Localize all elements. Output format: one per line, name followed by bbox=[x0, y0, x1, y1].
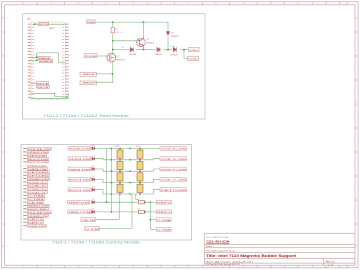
gate G1 output bubble bbox=[145, 202, 146, 203]
svg-text:Id: 1/1: Id: 1/1 bbox=[328, 265, 335, 267]
J2 net label PULSE.DM box bbox=[28, 211, 52, 214]
title block h-line 1 bbox=[205, 243, 356, 245]
svg-text:File: bubble-support.kicad_sch: File: bubble-support.kicad_sch bbox=[206, 250, 236, 253]
svg-text:SWAP.B: SWAP.B bbox=[40, 60, 53, 63]
title block h-line 3 bbox=[205, 252, 356, 254]
ladder left bus vertical 1 bbox=[106, 148, 108, 202]
junction R1 row C bbox=[150, 219, 152, 221]
connector J2 pin column bbox=[23, 148, 26, 227]
svg-text:Size: A4 | Date: 2023-05-18: Size: A4 | Date: 2023-05-18 | bbox=[206, 260, 254, 263]
svg-text:C: C bbox=[356, 103, 358, 106]
svg-text:PWR: PWR bbox=[87, 22, 95, 24]
J2 net label DET.X box bbox=[28, 218, 44, 221]
row D label box bbox=[85, 227, 100, 231]
J2 net label SEED.DM box bbox=[28, 204, 50, 207]
J2 net label DET.X wire stub bbox=[26, 218, 28, 220]
junction source-seed bbox=[112, 73, 114, 75]
wire stub to DET labels bbox=[31, 82, 37, 84]
right label COIL.X+.DM box bbox=[160, 147, 187, 151]
junction row B at bus bbox=[111, 211, 113, 213]
connector U1 left pin column bbox=[28, 24, 31, 100]
J2 net label DET.DM2 box bbox=[28, 174, 50, 177]
seed label B box bbox=[80, 81, 97, 85]
net label DET/A box bbox=[37, 82, 49, 86]
svg-text:U?: U? bbox=[138, 199, 140, 201]
J2 net label XFER.DM box bbox=[28, 151, 49, 154]
junction at U1 mid pin a bbox=[36, 56, 38, 58]
ladder junction dots bbox=[111, 148, 141, 195]
net label DET/B box bbox=[37, 85, 50, 88]
junction row A at bus bbox=[106, 201, 108, 203]
pulse label box bbox=[84, 54, 97, 58]
net label MOD/CS box bbox=[39, 22, 49, 25]
svg-text:D?: D? bbox=[92, 187, 94, 189]
svg-text:COIL.Y-.DM: COIL.Y-.DM bbox=[161, 180, 186, 182]
power label Pwr box bbox=[87, 20, 95, 24]
wire under U1 second bbox=[31, 98, 69, 100]
J2 net label BOOT.CM box bbox=[28, 161, 49, 164]
J2 net label COIL.Y- wire stub bbox=[26, 191, 28, 193]
seed label A box bbox=[80, 73, 97, 77]
svg-text:MOD.CS: MOD.CS bbox=[39, 24, 48, 26]
document link underline bbox=[206, 242, 229, 244]
seed module sheet box bbox=[23, 14, 205, 119]
J2 net label GEN.CM box bbox=[28, 167, 48, 170]
connector U1 body bbox=[31, 22, 65, 100]
svg-text:7110-1 / 7110A / 7110AZ Dummy: 7110-1 / 7110A / 7110AZ Dummy Module bbox=[52, 240, 140, 244]
svg-text:SEED.B: SEED.B bbox=[83, 82, 95, 84]
J2 net label PULSE.CM box bbox=[28, 147, 52, 150]
resistor R8 body bbox=[137, 173, 143, 181]
junction at U1 mid pin b bbox=[36, 60, 38, 62]
svg-text:COIL: COIL bbox=[170, 46, 176, 48]
right wire to DET.COM bbox=[153, 190, 160, 194]
clamp line wire segments bbox=[113, 49, 189, 51]
J2 net label XFER.CM wire stub bbox=[26, 215, 28, 217]
J2 net label COIL.X+ wire stub bbox=[26, 181, 28, 183]
diode D4 body bbox=[166, 32, 169, 35]
right label row B box bbox=[156, 210, 172, 214]
svg-text:GEN.COM: GEN.COM bbox=[69, 212, 91, 214]
J2 net label MOD.SEL box bbox=[28, 208, 49, 211]
svg-text:D: D bbox=[356, 151, 358, 154]
J2 stack gap bbox=[23, 163, 55, 165]
junction clamp right bbox=[183, 49, 185, 51]
right label COIL.Y+.DM box bbox=[160, 167, 187, 171]
right wire to COIL.Y+.DM bbox=[153, 169, 160, 171]
J2 net label GND.DM box bbox=[28, 224, 47, 227]
coil label B box bbox=[188, 56, 199, 60]
left edge grid tick marks bbox=[2, 32, 5, 224]
connector U1 left pin numbers bbox=[32, 24, 34, 99]
J2 net label DET.Y wire stub bbox=[26, 221, 28, 223]
right label row A box bbox=[156, 200, 172, 204]
svg-text:REP.DM: REP.DM bbox=[69, 202, 90, 204]
svg-text:COIL.Y+.DM: COIL.Y+.DM bbox=[161, 169, 186, 171]
resistor pin stubs (red) bbox=[120, 149, 140, 194]
wire U1 pin1 across top bbox=[35, 23, 67, 25]
svg-text:RES?: RES? bbox=[49, 28, 55, 30]
dummy input label BOOT.DM box bbox=[68, 178, 91, 182]
dummy input wire BOOT.DM bbox=[95, 179, 111, 182]
dummy module sheet box bbox=[21, 145, 192, 241]
J2 net label GEN.CM wire stub bbox=[26, 168, 28, 170]
junction base-resistor bbox=[112, 40, 114, 42]
svg-text:COIL+: COIL+ bbox=[189, 50, 199, 52]
right edge grid tick marks bbox=[355, 32, 358, 224]
svg-text:SEED.A: SEED.A bbox=[83, 73, 95, 76]
row C label box bbox=[81, 218, 96, 222]
svg-text:Rev: 1.0: Rev: 1.0 bbox=[326, 260, 336, 263]
J2 net label GEN.DM wire stub bbox=[26, 154, 28, 156]
ladder row wires bbox=[111, 148, 153, 194]
svg-text:SWAP.DM: SWAP.DM bbox=[28, 178, 49, 181]
right label row D box bbox=[156, 227, 171, 231]
net label SWAP/B box bbox=[39, 60, 52, 63]
net label SWAP/A box bbox=[38, 56, 50, 59]
right label row C box bbox=[156, 218, 171, 222]
svg-text:BOOT.CM: BOOT.CM bbox=[69, 190, 90, 192]
J2 net label DET.DM2 wire stub bbox=[26, 175, 28, 177]
right wire to COIL.X-.DM bbox=[153, 159, 160, 160]
row A diode D16 bbox=[92, 201, 95, 204]
junction gate G1 out bbox=[150, 201, 152, 203]
J2 net label REP.DM wire stub bbox=[26, 165, 28, 167]
svg-text:U?: U? bbox=[138, 209, 140, 211]
J2 net label SWAP.DM box bbox=[28, 177, 50, 180]
J2 net label DET.DM1 box bbox=[28, 171, 50, 174]
svg-text:1.2k: 1.2k bbox=[115, 32, 119, 34]
ladder left bus vertical 2 bbox=[110, 148, 112, 212]
svg-text:1N5817: 1N5817 bbox=[155, 54, 163, 56]
svg-text:UF4007: UF4007 bbox=[170, 55, 179, 57]
junction rail at Q1 bbox=[143, 21, 145, 23]
row B wire bbox=[95, 211, 138, 213]
svg-text:4x R?: 4x R? bbox=[115, 146, 120, 148]
resistor R7 body bbox=[137, 161, 143, 169]
J2 net label SWAP.DM wire stub bbox=[26, 178, 28, 180]
gate G2 body bbox=[138, 210, 144, 213]
resistor column 2 connecting wire bbox=[139, 148, 141, 194]
dummy input wire PULSE.COM bbox=[95, 147, 111, 149]
gate G2 output bubble bbox=[145, 211, 146, 212]
diode D3 body bbox=[173, 47, 176, 51]
resistor R5 body bbox=[117, 184, 123, 192]
dummy input diode D15 bbox=[92, 188, 95, 191]
title block h-line 5 bbox=[205, 262, 356, 264]
J2 net label CB.TM box bbox=[28, 201, 44, 204]
svg-text:BOOT.DM: BOOT.DM bbox=[69, 180, 90, 182]
svg-text:BSS138: BSS138 bbox=[117, 59, 126, 61]
coil label A box bbox=[189, 47, 200, 51]
J2 net label C.TMB wire stub bbox=[26, 198, 28, 200]
row A label box bbox=[68, 200, 90, 204]
J2 net label XFER.CM box bbox=[28, 214, 49, 217]
seed label A wire bbox=[95, 73, 113, 75]
mosfet Q2 body bbox=[107, 53, 116, 62]
J2 net label COIL.X- box bbox=[28, 184, 48, 187]
mosfet Q2 drain wire bbox=[112, 41, 114, 54]
svg-text:C.TM: C.TM bbox=[85, 229, 99, 231]
svg-text:DET.COM: DET.COM bbox=[161, 190, 187, 192]
mosfet Q2 internal bbox=[109, 53, 114, 62]
J2 net label XFER.DM wire stub bbox=[26, 151, 28, 153]
resistor R1 body bbox=[111, 27, 114, 33]
dummy input label BOOT.CM box bbox=[68, 188, 91, 192]
J2 net label COIL.X+ box bbox=[28, 181, 48, 184]
right wire to COIL.Y-.DM bbox=[153, 179, 160, 182]
svg-text:Sheet: /: Sheet: / bbox=[206, 245, 214, 248]
J2 net label CB.TM wire stub bbox=[26, 201, 28, 203]
svg-text:Sense: Sense bbox=[120, 32, 125, 34]
top edge grid tick marks bbox=[37, 2, 340, 5]
diode D4 wires bbox=[167, 37, 169, 50]
top power rail wire bbox=[95, 22, 168, 31]
svg-text:C: C bbox=[2, 103, 4, 106]
junction clamp at Q1 collector bbox=[143, 49, 145, 51]
wire under U1 bbox=[31, 93, 69, 96]
junction rail at R1 bbox=[112, 21, 114, 23]
J2 net label GEN.DM box bbox=[28, 154, 47, 157]
row B diode D17 bbox=[92, 210, 95, 213]
row B label box bbox=[68, 210, 91, 214]
svg-text:2N4403: 2N4403 bbox=[147, 42, 155, 44]
svg-text:D?: D? bbox=[92, 209, 94, 211]
seed label B wire bbox=[95, 81, 113, 83]
svg-text:COIL.X-.DM: COIL.X-.DM bbox=[161, 159, 186, 161]
svg-text:C.TMA: C.TMA bbox=[28, 195, 45, 198]
J2 net label COIL.Y+ box bbox=[28, 188, 48, 191]
svg-text:D?: D? bbox=[92, 199, 94, 201]
resistor R9 body bbox=[137, 184, 143, 192]
svg-text:D?: D? bbox=[92, 176, 94, 178]
J2 net label C.TMB box bbox=[28, 198, 45, 201]
J2 net label SEED.DM wire stub bbox=[26, 205, 28, 207]
svg-text:GND.DM: GND.DM bbox=[28, 226, 46, 228]
junction drain-clamp bbox=[112, 49, 114, 51]
svg-text:PULSE: PULSE bbox=[85, 56, 97, 58]
right drop vertical R1 bbox=[149, 202, 151, 229]
svg-text:REP.Y: REP.Y bbox=[157, 212, 172, 214]
base drive wire bbox=[113, 40, 140, 42]
J2 net label BOOT.CM wire stub bbox=[26, 161, 28, 163]
dummy input wire XFER.DM bbox=[95, 159, 111, 160]
svg-text:7110-1 / 7110A / 7110AZ Seed M: 7110-1 / 7110A / 7110AZ Seed Module bbox=[43, 114, 129, 118]
J2 net label COIL.Y+ wire stub bbox=[26, 188, 28, 190]
diode D2 body bbox=[157, 47, 160, 51]
J2 net label COIL.Y- box bbox=[28, 191, 48, 194]
mosfet Q2 gate wire bbox=[97, 55, 107, 57]
resistor R3 body bbox=[117, 161, 123, 169]
right label DET.COM box bbox=[160, 188, 187, 192]
gate G2 output wire bbox=[146, 211, 156, 213]
svg-text:COIL.X+.DM: COIL.X+.DM bbox=[161, 149, 186, 151]
wire stubs to SWAP labels bbox=[31, 57, 37, 60]
dummy input label GEN.DM box bbox=[68, 167, 91, 171]
svg-text:U?: U? bbox=[27, 17, 31, 21]
connector U1 right pin column bbox=[65, 24, 68, 100]
resistor R6 body bbox=[137, 150, 143, 158]
bottom edge grid tick marks bbox=[37, 265, 340, 268]
svg-text:D?: D? bbox=[92, 166, 94, 168]
svg-text:REP.X: REP.X bbox=[157, 202, 172, 204]
svg-text:COIL-: COIL- bbox=[188, 59, 198, 61]
title block top line bbox=[205, 232, 356, 234]
J2 net label C.TMA wire stub bbox=[26, 195, 28, 197]
row C right wire bbox=[150, 219, 156, 221]
title block left vertical line bbox=[204, 233, 206, 265]
right wire to COIL.X+.DM bbox=[153, 147, 160, 149]
row D right wire bbox=[150, 228, 156, 230]
svg-text:KiCad E.D.A. kicad 6.0.11: KiCad E.D.A. kicad 6.0.11 bbox=[206, 263, 240, 266]
dummy input wire BOOT.CM bbox=[95, 190, 111, 194]
transistor Q1 body bbox=[137, 38, 146, 47]
transistor Q1 emitter/collector wires bbox=[143, 22, 145, 49]
J2 net label GND.DM wire stub bbox=[26, 225, 28, 227]
svg-text:GEN.DM: GEN.DM bbox=[69, 169, 90, 171]
gate G1 input wire from ladder bbox=[136, 194, 139, 200]
diode D1 body bbox=[130, 47, 133, 51]
svg-text:D?: D? bbox=[92, 156, 94, 158]
svg-text:XFER.DM: XFER.DM bbox=[69, 159, 90, 161]
svg-text:CGL-40-LICW: CGL-40-LICW bbox=[206, 239, 230, 243]
svg-text:C.TMA: C.TMA bbox=[157, 219, 172, 222]
mosfet Q2 source wire bbox=[112, 62, 114, 83]
J2 net label MOD.SEL wire stub bbox=[26, 208, 28, 210]
svg-text:1N4148: 1N4148 bbox=[129, 54, 137, 56]
junction clamp at D4 bbox=[167, 49, 169, 51]
svg-text:C.TMB: C.TMB bbox=[157, 230, 172, 232]
ladder drop vertical L2 bbox=[131, 194, 133, 229]
ladder drop vertical L1 bbox=[118, 194, 120, 220]
svg-text:D: D bbox=[2, 151, 4, 154]
J2 net label REP.DM box bbox=[28, 164, 47, 167]
J2 net label PULSE.CM wire stub bbox=[26, 148, 28, 150]
svg-text:PULSE.COM: PULSE.COM bbox=[69, 149, 90, 151]
J2 net label PULSE.DM wire stub bbox=[26, 211, 28, 213]
wire loop around mid labels bbox=[37, 53, 66, 63]
coil label B wire bbox=[184, 50, 188, 59]
svg-text:DET.B: DET.B bbox=[37, 87, 49, 89]
dummy input label XFER.DM box bbox=[68, 157, 91, 161]
transistor Q1 internal bbox=[139, 38, 143, 46]
gate G1 body bbox=[138, 201, 144, 204]
right label COIL.Y-.DM box bbox=[160, 178, 187, 182]
title block h-line 4 bbox=[205, 257, 356, 259]
title block rev box divider bbox=[323, 258, 325, 265]
junction at U1 pin 1 bbox=[34, 23, 36, 25]
resistor R4 body bbox=[117, 173, 123, 181]
resistor column 1 connecting wire bbox=[119, 148, 121, 194]
J2 net label C.TMA box bbox=[28, 194, 45, 197]
right label COIL.X-.DM box bbox=[160, 157, 187, 161]
row D wire bbox=[100, 228, 132, 230]
J2 net label COIL.X- wire stub bbox=[26, 185, 28, 187]
title block h-line 2 bbox=[205, 247, 356, 249]
J2 net label DET.DM1 wire stub bbox=[26, 171, 28, 173]
J2 net label DET.Y box bbox=[28, 221, 44, 224]
J2 net label BOOT.DM box bbox=[28, 157, 49, 160]
resistor R2 body bbox=[117, 150, 123, 158]
dummy input label PULSE.COM box bbox=[68, 147, 91, 151]
dummy input diode D11 bbox=[92, 147, 95, 150]
row A wire bbox=[95, 201, 138, 203]
svg-text:Title: Intel 7110 Magnetic Bub: Title: Intel 7110 Magnetic Bubble Suppor… bbox=[206, 254, 297, 258]
dummy input wire GEN.DM bbox=[95, 169, 111, 171]
resistor R1 wires bbox=[112, 22, 114, 41]
connector U1 right pin numbers bbox=[62, 24, 64, 99]
svg-text:1N5819: 1N5819 bbox=[171, 36, 179, 38]
J2 net label BOOT.DM wire stub bbox=[26, 158, 28, 160]
dummy input diode D12 bbox=[92, 157, 95, 160]
svg-text:(c) 2023 CGL: (c) 2023 CGL bbox=[206, 237, 230, 239]
dummy input diode D14 bbox=[92, 178, 95, 181]
svg-text:CB.TM: CB.TM bbox=[82, 220, 96, 222]
svg-text:D?: D? bbox=[92, 145, 94, 147]
row C wire bbox=[96, 219, 119, 221]
dummy input diode D13 bbox=[92, 167, 95, 170]
gate G1 output wire bbox=[146, 201, 156, 203]
